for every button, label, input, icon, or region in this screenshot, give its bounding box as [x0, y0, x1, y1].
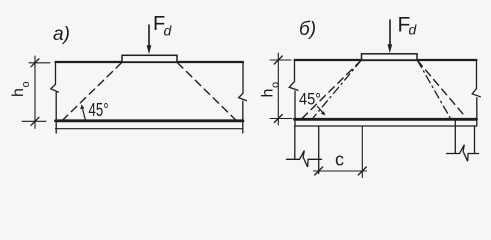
wire beam top chord (fig b)	[295, 59, 477, 61]
break cut line wall right (fig b)	[447, 145, 479, 162]
svg-text:d: d	[409, 22, 418, 38]
wire beam bottom thick line (fig a)	[56, 119, 244, 122]
node right break edge (fig a)	[239, 62, 247, 133]
bearing plate (fig a)	[122, 55, 177, 62]
svg-text:h: h	[260, 89, 277, 98]
dimension h0 (fig a)	[34, 56, 36, 129]
wire dashed 45deg line left (fig a)	[62, 63, 122, 121]
force arrow Fd (fig a)	[148, 25, 150, 46]
svg-text:d: d	[164, 22, 173, 38]
dimension h0 (fig b)	[277, 53, 279, 125]
wire dash-dot line to support right (fig b)	[418, 61, 451, 119]
wire dashed 45deg line right (fig b)	[418, 61, 467, 118]
wire beam soffit thin line (fig a)	[56, 128, 244, 130]
svg-text:c: c	[335, 150, 344, 170]
node left break edge (fig b)	[289, 60, 298, 126]
wire beam top chord (fig a)	[56, 61, 244, 63]
wire beam soffit thin line (fig b)	[295, 125, 477, 127]
bearing plate (fig b)	[362, 54, 418, 60]
wire dashed 45deg line left (fig b)	[303, 61, 362, 119]
support wall left (fig b)	[294, 126, 296, 159]
label h0 (fig a)	[10, 81, 32, 97]
wire beam bottom thick line (fig b)	[295, 118, 477, 121]
break cut line wall left (fig b)	[287, 151, 322, 168]
support wall right (fig b)	[454, 121, 456, 154]
svg-text:o: o	[270, 82, 282, 88]
svg-text:45°: 45°	[89, 100, 109, 120]
svg-text:o: o	[20, 81, 32, 87]
node left break edge (fig a)	[51, 62, 59, 133]
wire dashed 45deg line right (fig a)	[178, 63, 237, 121]
label h0 (fig b)	[260, 82, 282, 98]
force arrow Fd (fig b)	[389, 20, 391, 45]
node right break edge (fig b)	[472, 60, 480, 126]
angle pointer arrow (fig a)	[83, 109, 86, 121]
svg-text:a): a)	[53, 24, 70, 45]
dimension c (fig b)	[314, 170, 367, 172]
svg-text:h: h	[10, 88, 27, 97]
wire dash-dot line to support left (fig b)	[313, 61, 361, 119]
svg-text:б): б)	[299, 19, 316, 40]
angle pointer arrow (fig b)	[318, 107, 323, 113]
svg-text:45°: 45°	[299, 90, 321, 109]
